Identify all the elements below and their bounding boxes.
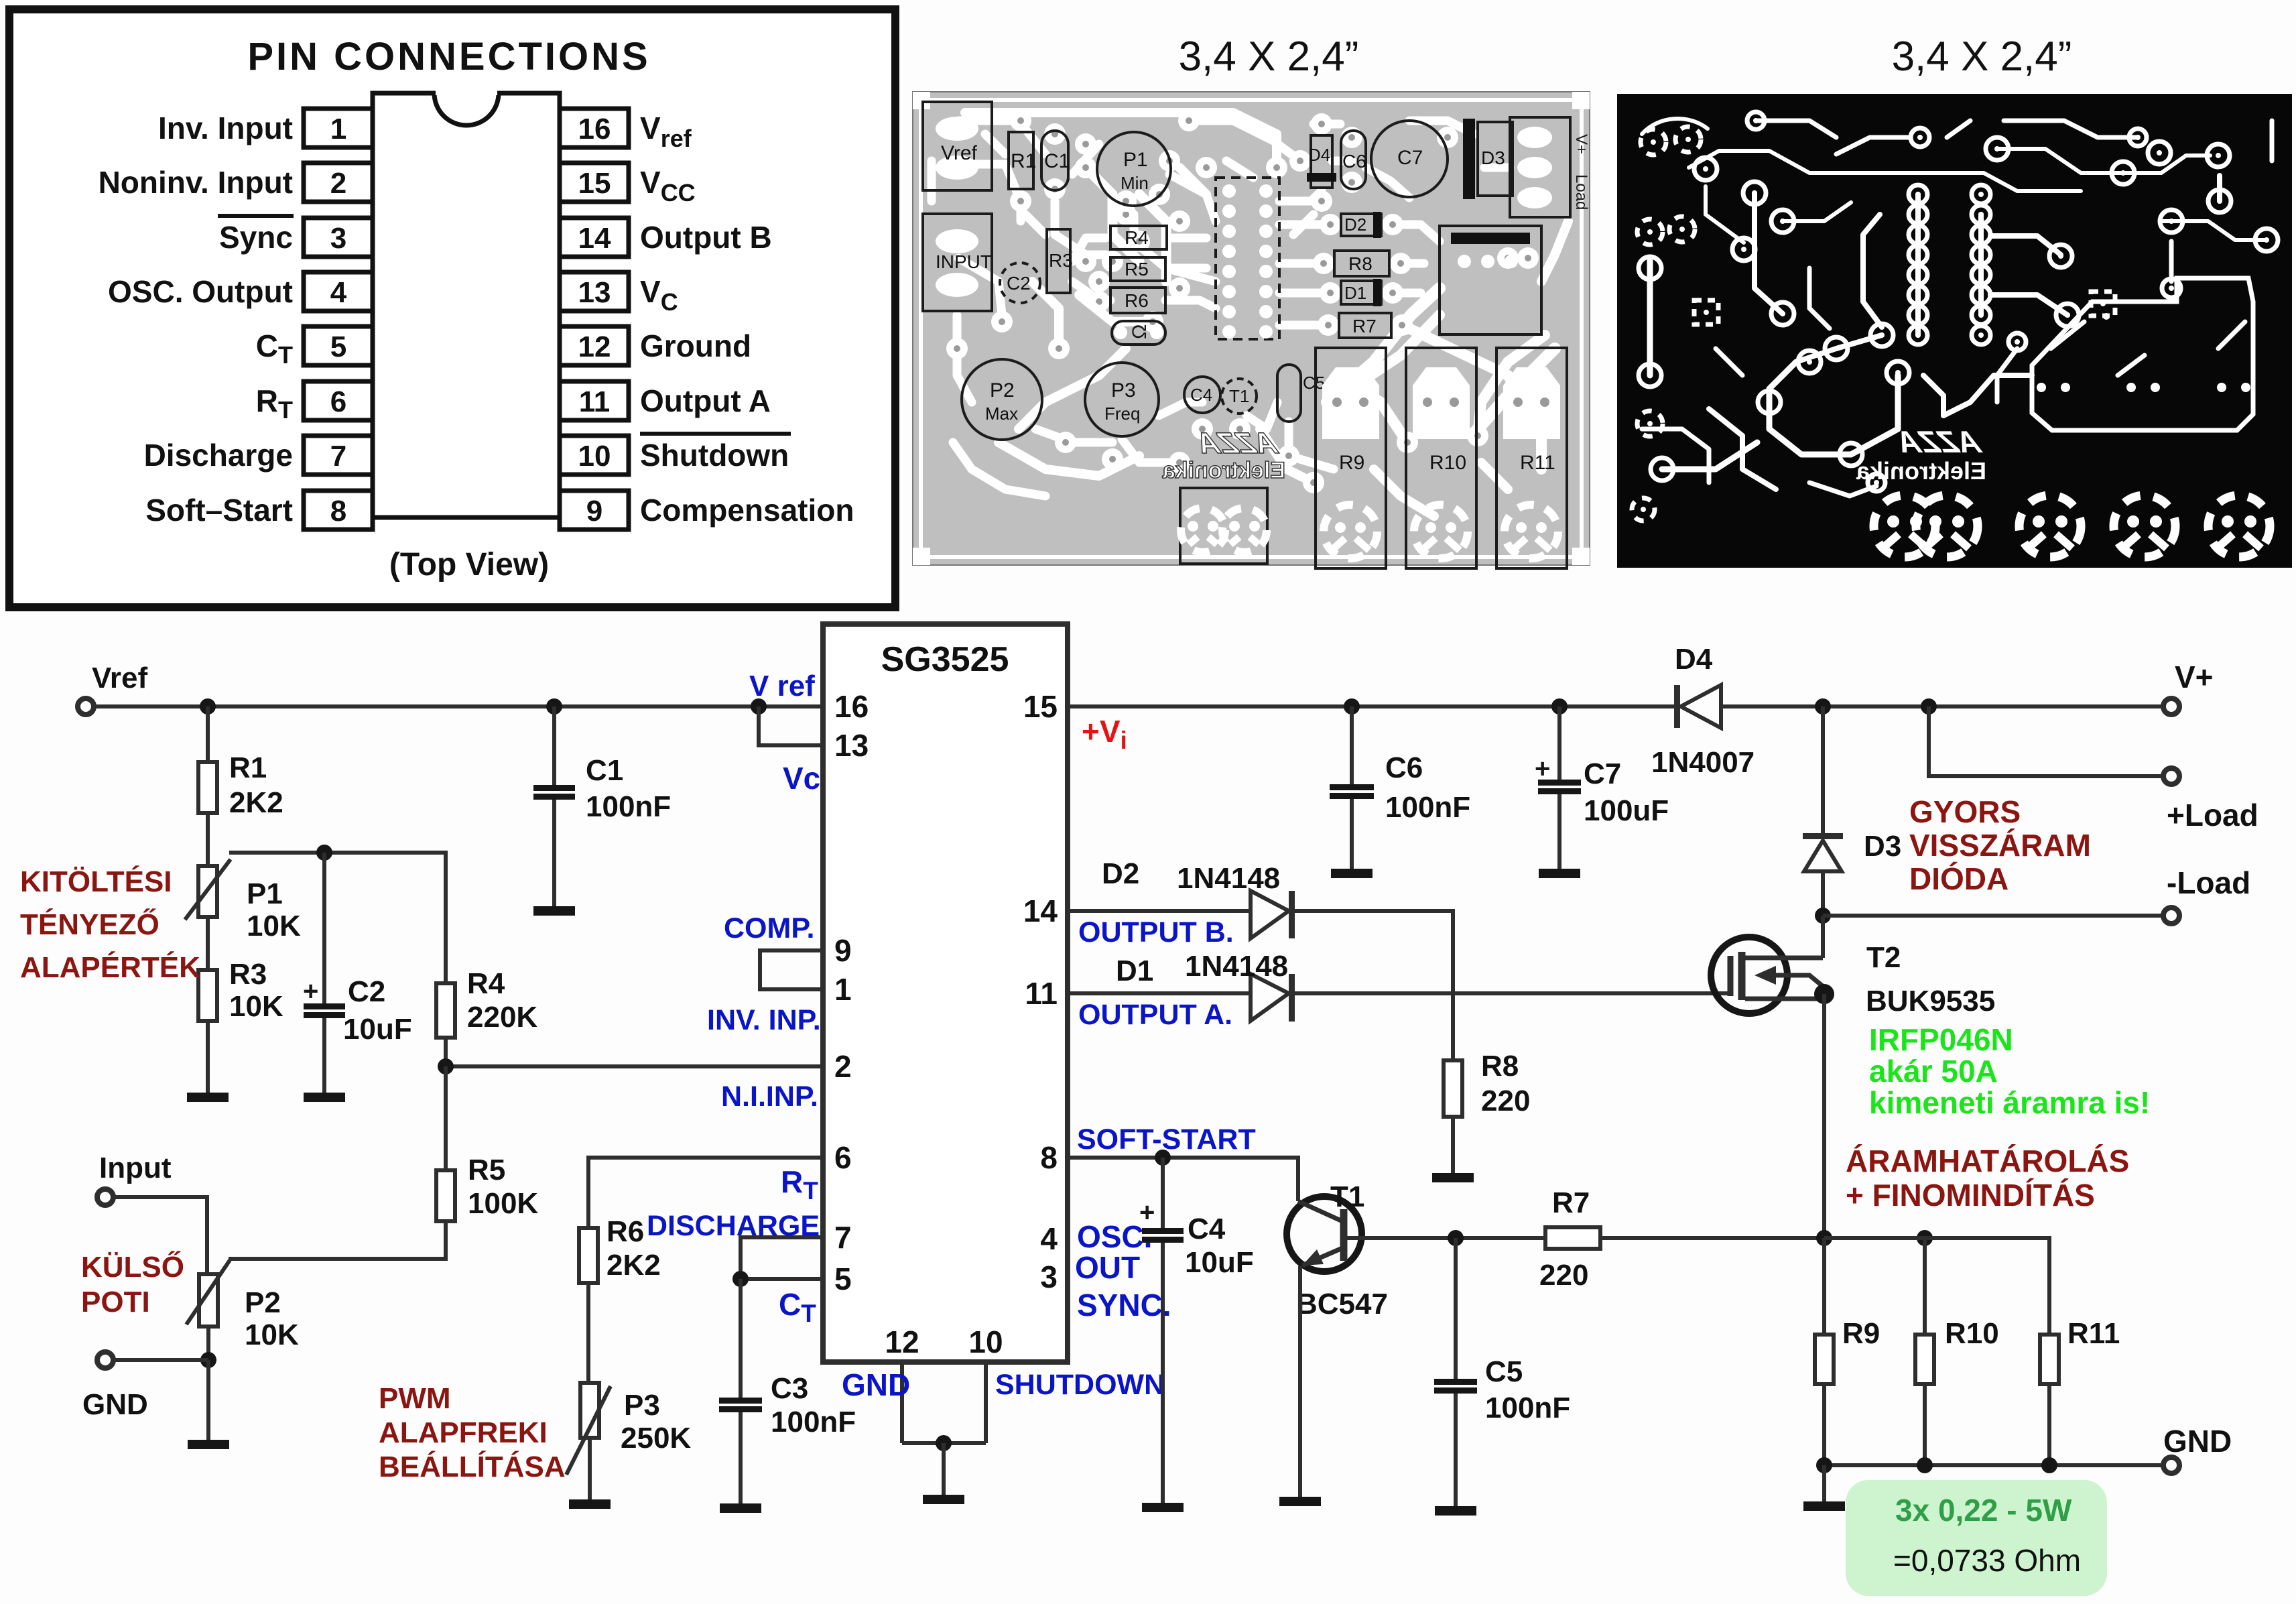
pcb pad <box>1102 448 1123 470</box>
copper pad <box>1887 361 1909 384</box>
pcb label C5 <box>1303 373 1325 393</box>
node Vref/C1 <box>546 698 562 715</box>
wire R10 down <box>1923 1384 1927 1465</box>
wire C6 to ground <box>1350 799 1354 869</box>
ground C1 <box>533 906 575 916</box>
pcb pad <box>1303 472 1324 493</box>
label C3 <box>771 1372 808 1405</box>
label C3 100nF <box>771 1406 856 1438</box>
pcb IC pad row 1 <box>1222 184 1273 198</box>
pcb potentiometer P3 outline <box>1085 363 1159 436</box>
svg-text:C4: C4 <box>1188 1213 1226 1245</box>
copper lower left run <box>1769 362 1851 454</box>
svg-text:12: 12 <box>578 330 611 363</box>
pcb pad <box>1169 277 1190 299</box>
wire node to C5 <box>1454 1238 1458 1379</box>
trace P2-P3 lower <box>999 442 1139 476</box>
pin number 13 <box>834 728 869 763</box>
pcb diode D4 outline <box>1311 135 1332 188</box>
terminal V+ <box>2163 698 2179 715</box>
copper IC pad R6 <box>1972 286 1990 304</box>
copper pad <box>1868 474 1885 491</box>
trace R5 to IC <box>1165 268 1216 282</box>
svg-text:P2: P2 <box>245 1286 281 1319</box>
trace left mid <box>1032 282 1059 349</box>
svg-text:D3: D3 <box>1864 830 1901 863</box>
pcb logo AZZA Elektronika (mirrored) <box>1162 427 1285 483</box>
svg-text:16: 16 <box>834 689 869 724</box>
pcb pad <box>1169 452 1190 473</box>
pcb diode D3 body <box>1463 119 1513 199</box>
label GYORS VISSZARAM DIODA <box>1909 794 2091 896</box>
pin 6 box (RT) <box>304 381 373 420</box>
copper IC pad L3 <box>1909 225 1927 244</box>
svg-text:+: + <box>1535 754 1550 784</box>
trace Vref to R1 <box>958 164 1021 221</box>
ground sense <box>1803 1501 1845 1511</box>
label COMP. (blue) <box>724 912 814 944</box>
trace P1 to IC <box>1169 174 1216 221</box>
ground C6 <box>1331 869 1373 878</box>
svg-text:1N4007: 1N4007 <box>1651 746 1755 779</box>
copper pad <box>2148 141 2171 164</box>
wire T2 drain up <box>1821 916 1825 958</box>
pcb R11 top pad <box>1503 367 1560 439</box>
pcb IC pad row 3 <box>1222 225 1273 238</box>
resistor R9 <box>1815 1335 1834 1384</box>
svg-text:C1: C1 <box>1044 150 1070 172</box>
svg-text:R8: R8 <box>1348 253 1373 274</box>
pcb pad <box>1055 432 1076 453</box>
svg-text:220: 220 <box>1539 1259 1588 1292</box>
pin number 14 <box>1023 893 1058 928</box>
copper pad <box>1743 182 1766 204</box>
copper IC pad L8 <box>1909 326 1927 345</box>
svg-text:=0,0733 Ohm: =0,0733 Ohm <box>1893 1543 2081 1578</box>
label Vc (blue) <box>783 761 820 796</box>
pcb IC pad row 8 <box>1222 325 1273 338</box>
wire D3 anode down <box>1821 871 1825 916</box>
svg-text:5: 5 <box>834 1261 852 1296</box>
copper dashed pad <box>1641 129 1666 155</box>
pcb pad <box>1178 110 1200 131</box>
pcb pad <box>1266 157 1287 178</box>
svg-text:6: 6 <box>330 385 346 418</box>
svg-text:D1: D1 <box>1344 283 1366 303</box>
trace D1 right <box>1393 289 1421 298</box>
pcb IC pad row 6 <box>1222 285 1273 298</box>
label R1 <box>229 751 267 784</box>
transistor T2 BUK9535 MOSFET <box>1711 937 1824 1013</box>
ground C7 <box>1539 869 1580 878</box>
label BUK9535 <box>1866 985 1995 1017</box>
copper IC column R join <box>1978 214 1984 315</box>
svg-text:AZZA: AZZA <box>1195 427 1281 459</box>
label R7 220 <box>1539 1259 1588 1292</box>
pcb label R3 <box>1049 250 1073 271</box>
pin 3 box (Sync) <box>304 218 373 257</box>
svg-text:9: 9 <box>586 495 602 528</box>
label KULSO POTI <box>81 1250 184 1318</box>
svg-text:T1: T1 <box>1330 1180 1364 1213</box>
node wiper/C2 <box>316 845 332 861</box>
svg-text:220K: 220K <box>467 1001 537 1034</box>
svg-text:R9: R9 <box>1842 1317 1880 1350</box>
label C1 <box>586 754 623 787</box>
pcb label D2 <box>1344 214 1366 235</box>
copper tr extra <box>2270 121 2275 161</box>
node rail/+Load branch <box>1921 698 1937 715</box>
trace R10-R11 diag <box>1481 462 1508 489</box>
svg-text:1: 1 <box>330 113 346 145</box>
label C5 100nF <box>1485 1392 1570 1424</box>
svg-text:BEÁLLÍTÁSA: BEÁLLÍTÁSA <box>379 1450 566 1483</box>
label R6 2K2 <box>607 1249 661 1282</box>
svg-text:D4: D4 <box>1308 145 1330 165</box>
svg-text:Elektronika: Elektronika <box>1856 457 1986 485</box>
pcb label Vref <box>941 142 978 164</box>
svg-text:ALAPFREKI: ALAPFREKI <box>379 1416 548 1449</box>
trace P2 to P3 <box>1035 429 1112 442</box>
trace C1 down <box>1055 201 1106 255</box>
label D4 <box>1675 643 1713 676</box>
trace P3 down <box>1122 439 1179 462</box>
copper pad <box>2008 333 2026 351</box>
copper vertical left <box>1647 260 1653 375</box>
svg-text:D3: D3 <box>1481 147 1505 168</box>
copper pad <box>1771 302 1794 325</box>
pin 8 box (Soft&#8211;Start) <box>304 491 373 530</box>
copper pad <box>2255 229 2278 251</box>
svg-text:Inv. Input: Inv. Input <box>158 111 293 145</box>
svg-text:ALAPÉRTÉK: ALAPÉRTÉK <box>20 950 200 984</box>
node R4/R5/pin2 <box>438 1058 454 1074</box>
label C5 <box>1485 1355 1523 1388</box>
svg-text:R8: R8 <box>1481 1050 1519 1083</box>
pcb pad <box>1044 123 1066 145</box>
label RT (blue) <box>781 1164 818 1205</box>
pin 3 label Sync <box>218 216 294 255</box>
trace P2-P3 upper <box>1019 349 1126 429</box>
copper pad <box>2162 279 2181 298</box>
svg-text:P3: P3 <box>1111 379 1136 402</box>
node R11 bottom <box>2041 1457 2057 1473</box>
copper plane pin dots <box>2037 313 2250 392</box>
wire Vref to R1 <box>206 706 210 762</box>
label 1N4007 <box>1651 746 1755 779</box>
label ARAMHATAROLAS + FINOMINDITAS <box>1846 1144 2129 1213</box>
trace IC to R7 <box>1279 321 1328 330</box>
potentiometer P2 body <box>199 1274 218 1327</box>
copper pad <box>2056 304 2079 326</box>
pcb label D4 <box>1308 145 1330 165</box>
wire node to ground <box>942 1443 946 1495</box>
copper extra 3 <box>2169 241 2174 282</box>
svg-text:R1: R1 <box>229 751 267 784</box>
wire D4 to V+ terminal <box>1721 704 2163 708</box>
diode D1 (1N4148) <box>1251 974 1295 1022</box>
svg-text:Vref: Vref <box>941 142 978 164</box>
caption (Top View) <box>389 547 549 582</box>
pin 9 label Compensation <box>640 493 854 528</box>
label CT (blue) <box>779 1287 816 1327</box>
pcb pad <box>1517 247 1539 269</box>
label P2 <box>245 1286 281 1319</box>
label SHUTDOWN (blue) <box>995 1369 1165 1401</box>
pin connections outer box <box>9 9 895 607</box>
pcb pad <box>1115 190 1137 212</box>
PCB component-side board <box>913 92 1590 565</box>
ground P3 <box>569 1499 611 1509</box>
pcb label C6 <box>1342 151 1366 172</box>
svg-text:3,4 X 2,4”: 3,4 X 2,4” <box>1179 34 1359 80</box>
svg-text:220: 220 <box>1481 1085 1530 1117</box>
copper IC pad L5 <box>1909 265 1927 284</box>
terminal Input <box>97 1189 113 1205</box>
svg-text:R11: R11 <box>1520 452 1555 474</box>
ground R8 <box>1432 1173 1474 1182</box>
copper dashed pad <box>1632 498 1655 521</box>
label D1 <box>1116 954 1153 987</box>
svg-text:100uF: 100uF <box>1584 794 1669 827</box>
terminal GND (sense) <box>2163 1457 2179 1473</box>
terminal +Load <box>2163 768 2179 784</box>
svg-text:D4: D4 <box>1675 643 1713 676</box>
copper top extra run <box>1756 121 1836 137</box>
copper pad <box>2208 190 2231 212</box>
pcb IC pad row 7 <box>1222 305 1273 318</box>
pcb label P2 <box>990 379 1015 402</box>
pcb label R4 <box>1125 227 1149 248</box>
label R8 <box>1481 1050 1519 1083</box>
svg-text:R4: R4 <box>467 967 505 1000</box>
pin number 8 <box>1040 1140 1058 1175</box>
svg-text:GYORS: GYORS <box>1909 794 2021 829</box>
copper IC pad R5 <box>1972 265 1990 284</box>
node sense/R10 <box>1917 1230 1933 1246</box>
svg-text:Max: Max <box>985 404 1018 424</box>
trace top middle <box>1189 121 1300 161</box>
pin 2 label Noninv. Input <box>99 165 293 200</box>
svg-text:PIN CONNECTIONS: PIN CONNECTIONS <box>247 35 650 78</box>
copper to mid pad <box>1851 375 1898 454</box>
pcb connector INPUT outline <box>923 214 992 311</box>
resistor R7 <box>1545 1227 1600 1249</box>
svg-text:7: 7 <box>834 1220 852 1255</box>
svg-text:P1: P1 <box>247 877 283 910</box>
trace mid diag 1 <box>1086 168 1139 261</box>
pcb capacitor C5 outline <box>1277 365 1301 422</box>
pcb pad <box>1010 110 1031 131</box>
copper pad <box>1870 324 1893 347</box>
potentiometer P3 body <box>580 1383 599 1438</box>
copper pad <box>1747 112 1765 129</box>
svg-text:C6: C6 <box>1385 751 1423 784</box>
svg-text:T2: T2 <box>1866 941 1901 974</box>
svg-text:2K2: 2K2 <box>229 786 283 819</box>
trace mid diag 3 <box>1079 295 1153 322</box>
label R6 <box>607 1215 644 1248</box>
pin number 9 <box>834 933 852 968</box>
wire to R10 <box>1923 1238 1927 1335</box>
pcb label R11 <box>1520 452 1555 474</box>
pin 9 box (Compensation) <box>560 491 629 530</box>
trace D4 to IC <box>1293 214 1314 235</box>
pcb label Freq <box>1104 404 1140 424</box>
svg-text:GND: GND <box>842 1367 910 1402</box>
pcb resistor R4 outline <box>1110 226 1167 249</box>
wire Input to P2 <box>113 1197 207 1274</box>
label D1 1N4148 <box>1185 950 1288 983</box>
wire pin 12 stub <box>900 1362 904 1443</box>
svg-text:P2: P2 <box>990 379 1015 402</box>
wire pin 6 (RT) to R6 <box>588 1158 823 1228</box>
svg-text:3: 3 <box>1040 1259 1058 1294</box>
svg-text:15: 15 <box>578 167 611 200</box>
svg-text:P1: P1 <box>1123 149 1148 171</box>
svg-text:1N4148: 1N4148 <box>1185 950 1288 983</box>
pin 15 label VCC <box>640 165 696 206</box>
pcb capacitor C4 outline <box>1184 377 1220 413</box>
trace relay diagonal <box>1327 288 1440 402</box>
svg-text:13: 13 <box>578 276 611 309</box>
svg-text:C3: C3 <box>771 1372 808 1405</box>
svg-text:100K: 100K <box>468 1187 538 1220</box>
pcb capacitor C7 outline <box>1371 121 1448 197</box>
label P3 250K <box>621 1422 691 1455</box>
copper ground plane polygon <box>2032 278 2253 430</box>
svg-text:INV. INP.: INV. INP. <box>707 1004 821 1036</box>
ground C3 <box>720 1503 761 1513</box>
svg-text:100nF: 100nF <box>586 790 671 823</box>
label PWM ALAPFREKI BEALLITASA <box>379 1382 566 1483</box>
pin number 11 <box>1025 976 1058 1011</box>
svg-text:+: + <box>303 977 318 1006</box>
svg-text:D2: D2 <box>1344 214 1366 235</box>
copper fan pad <box>2019 495 2081 557</box>
node pin8/C4 <box>1155 1150 1171 1166</box>
trace C7 top to D3 <box>1409 121 1474 134</box>
wire pin 11 to D1 <box>1068 991 1251 995</box>
svg-text:2: 2 <box>330 167 346 200</box>
svg-text:R1: R1 <box>1011 150 1036 172</box>
copper run 4 <box>1755 193 1783 314</box>
label SG3525 <box>881 640 1009 679</box>
trace P1 down to R4 <box>1134 214 1206 268</box>
trace top right of P1 <box>1314 120 1340 129</box>
pin 10 box (Shutdown) <box>560 436 629 475</box>
copper pad <box>1771 210 1794 233</box>
copper IC column L join <box>1915 194 1921 335</box>
pcb pad <box>1088 291 1110 312</box>
svg-text:C4: C4 <box>1190 385 1212 405</box>
wire C4 to ground <box>1161 1243 1165 1503</box>
svg-text:COMP.: COMP. <box>724 912 814 944</box>
node pin5/pin7/C3 <box>732 1271 749 1287</box>
label C6 100nF <box>1385 791 1470 824</box>
wire Vref to C1 <box>552 706 556 785</box>
label IRFP046N akar 50A kimeneti aramra is! (green) <box>1869 1022 2150 1120</box>
pcb fan pad mount L <box>1181 508 1225 552</box>
pcb pad <box>1196 157 1217 178</box>
svg-text:OUTPUT A.: OUTPUT A. <box>1078 999 1232 1031</box>
copper pad <box>1986 137 2008 160</box>
svg-text:10uF: 10uF <box>343 1013 412 1046</box>
wire pin9 to pin1 loop <box>760 950 823 989</box>
svg-text:3: 3 <box>330 222 346 255</box>
pcb diode D1 outline <box>1341 281 1381 304</box>
pin 8 label Soft&#8211;Start <box>145 493 293 528</box>
trace IC to R8 <box>1279 259 1324 268</box>
pcb resistor R6 outline <box>1110 288 1165 313</box>
node pin12/pin10 <box>936 1435 952 1451</box>
svg-text:8: 8 <box>330 495 346 528</box>
wire node to C3 <box>739 1279 743 1398</box>
pcb label C7 <box>1397 147 1423 169</box>
svg-text:IRFP046N: IRFP046N <box>1869 1022 2013 1057</box>
wire pin12-pin10 join <box>902 1441 986 1445</box>
resistor R3 <box>198 970 217 1021</box>
capacitor C5 <box>1434 1379 1477 1394</box>
pcb capacitor C2 outline <box>1000 263 1040 303</box>
pcb label R7 <box>1352 316 1377 336</box>
pcb label R1 <box>1011 150 1036 172</box>
svg-text:100nF: 100nF <box>1485 1392 1570 1424</box>
svg-text:12: 12 <box>885 1324 919 1359</box>
callout box 3x 0,22 - 5W <box>1846 1480 2107 1596</box>
wire C1 to ground <box>552 800 556 906</box>
svg-text:INPUT: INPUT <box>936 251 992 272</box>
terminal GND (input side) <box>97 1352 113 1368</box>
svg-text:Sync: Sync <box>219 220 293 255</box>
svg-text:D2: D2 <box>1102 857 1139 890</box>
svg-text:3x 0,22 - 5W: 3x 0,22 - 5W <box>1895 1493 2072 1528</box>
label DISCHARGE (blue) <box>647 1210 820 1242</box>
svg-text:+ FINOMINDÍTÁS: + FINOMINDÍTÁS <box>1846 1178 2095 1213</box>
copper bl extra 1 <box>1642 429 1709 483</box>
pin 12 box (Ground) <box>560 326 629 365</box>
caption 3,4 X 2,4" (right board) <box>1892 34 2072 80</box>
copper dashed pad <box>1637 411 1663 436</box>
trace mid diag 2 <box>1139 194 1166 282</box>
copper right run 2 <box>2163 221 2267 240</box>
label R11 <box>2067 1317 2120 1350</box>
pcb pad <box>1278 445 1299 467</box>
pin 5 box (CT) <box>304 326 373 365</box>
trace R9-R10 bottom diag <box>1374 469 1434 516</box>
label R3 <box>229 958 267 991</box>
label D2 <box>1102 857 1139 890</box>
svg-text:C5: C5 <box>1485 1355 1523 1388</box>
pcb pad <box>1437 127 1458 148</box>
label P2 10K <box>245 1318 299 1351</box>
label C4 10uF <box>1185 1246 1254 1279</box>
node P2/GND <box>200 1352 216 1368</box>
pin 2 box (Noninv. Input) <box>304 163 373 202</box>
copper pad <box>1639 364 1661 387</box>
node T2 source <box>1814 984 1834 1004</box>
svg-text:13: 13 <box>834 728 869 763</box>
pin number 6 <box>834 1140 852 1175</box>
copper pad <box>2160 210 2183 233</box>
copper dashed pad <box>1669 217 1695 242</box>
svg-text:14: 14 <box>578 222 611 255</box>
copper top extra run 2 <box>2004 121 2138 137</box>
trace INPUT down to P2 <box>957 315 972 402</box>
ground C4 <box>1142 1503 1184 1512</box>
svg-text:GND: GND <box>82 1388 148 1421</box>
pin number 12 <box>885 1324 919 1359</box>
